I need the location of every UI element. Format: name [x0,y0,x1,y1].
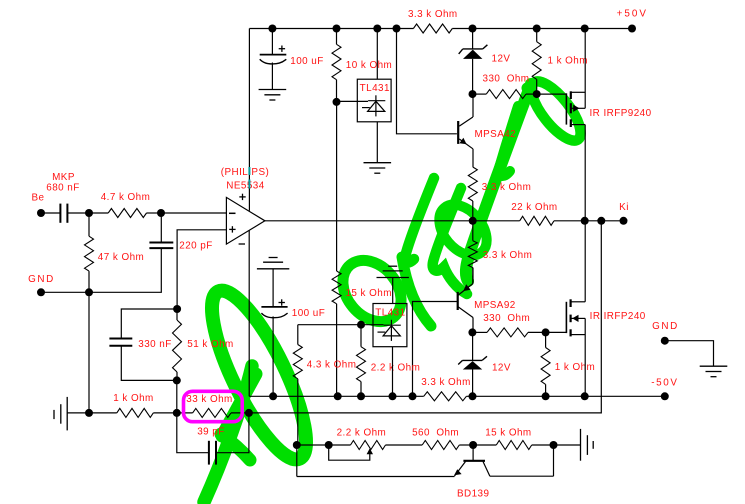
resistor 330 Ohm (top) [473,90,537,99]
node BD139 base junction [469,441,477,449]
node 330/1k junction bottom [542,328,550,336]
net label Be [32,193,45,204]
resistor 1 k Ohm (top) [532,29,541,95]
resistor 3.3 k Ohm (upper VAS) [468,167,477,221]
regulator TL431 (bottom) symbol [378,320,401,341]
value label 3.3 k Ohm (top rail) [408,9,458,20]
terminal +50V [628,25,636,33]
svg-text:4.7 k Ohm: 4.7 k Ohm [101,192,151,203]
transistor Q3 BD139 [297,445,554,477]
wire TL431 cathode to rail [376,29,378,80]
op-amp inverting input minus sign [229,212,236,214]
svg-text:15 k Ohm: 15 k Ohm [485,428,531,439]
ground below TL431 top [364,163,392,174]
resistor 1 k Ohm (feedback) [89,408,177,417]
terminal -50V [661,392,669,400]
resistor 15 k Ohm (mid) [332,271,341,396]
wire to op-amp inverting input [161,212,226,214]
svg-text:MPSA92: MPSA92 [474,300,516,311]
wire MPSA42 base feed [397,29,457,134]
svg-text:+50V: +50V [617,9,648,20]
value label 47 k Ohm [98,252,144,263]
node -50V FET source junction [581,392,589,400]
svg-text:330 Ohm: 330 Ohm [483,313,530,324]
capacitor MKP 680 nF [60,204,67,223]
wire bias line left [297,444,351,446]
svg-text:-50V: -50V [651,378,678,389]
part label BD139 [457,489,490,500]
node trimmer junction [325,441,333,449]
ground symbol left [54,397,67,431]
svg-text:TL431: TL431 [375,307,405,318]
svg-text:100 uF: 100 uF [290,56,323,67]
svg-text:33 k Ohm: 33 k Ohm [186,394,232,405]
net label Ki [619,202,629,213]
net label -50V [651,378,678,389]
value label 15 k Ohm (bias) [485,428,531,439]
capacitor 220 pF [149,213,173,248]
wire gate feed P-FET [537,93,567,95]
node 51k bottom junction [173,376,181,384]
node feedback left junction [173,409,181,417]
part label IR IRFP9240 [589,108,651,119]
ground above 100uF bottom [257,258,289,269]
resistor 2.2 k Ohm (trimmer) [351,441,386,450]
value label 1 k Ohm (feedback) [113,393,153,404]
wire +50V rail left segment [249,28,413,30]
svg-text:47 k Ohm: 47 k Ohm [98,252,144,263]
highlight box around 33 k Ohm [184,391,243,421]
regulator TL431 (bottom) box [373,304,407,347]
wire V-filt line [249,395,424,397]
op-amp noninverting input plus sign [229,226,235,232]
node BD139 collector junction [550,441,558,449]
svg-text:GND: GND [652,321,679,332]
value label 220 pF [179,241,212,252]
svg-text:1 k Ohm: 1 k Ohm [555,362,595,373]
wire 560 to node [459,444,473,446]
node -50V 1k junction [542,392,550,400]
value label 22 k Ohm [511,202,557,213]
svg-text:330 nF: 330 nF [138,339,171,350]
value label 4.3 k Ohm [307,359,357,370]
resistor 3.3 k Ohm (top rail series) [413,24,452,33]
svg-text:Ki: Ki [619,202,629,213]
svg-text:3.3 k Ohm: 3.3 k Ohm [408,9,458,20]
node on rail (10k) [333,25,341,33]
wire 51k to feedback node [176,380,178,413]
resistor 47 k Ohm [85,213,94,292]
value label 1 k Ohm (top) [547,56,587,67]
op-amp V- pin minus sign [239,243,245,245]
node feedback right junction [245,409,253,417]
node V-filt TL431 junction [389,392,397,400]
wire op-amp V+ supply [248,29,250,211]
wire ground to 1k [67,412,89,414]
node on rail (1k) [533,25,541,33]
terminal Be input [37,209,45,217]
wire op-amp V- supply [248,230,250,396]
op-amp label NE5534 [226,181,264,192]
regulator TL431 (top) symbol [362,95,385,116]
svg-text:100 uF: 100 uF [292,308,325,319]
wire input to cap [41,212,60,214]
teal overlap marks on supply line [248,167,250,189]
wire 47k leg down [88,292,90,413]
wire bias to ground right [554,444,581,446]
plus sign 100uF bottom [279,299,285,305]
node on rail (FET source) [581,25,589,33]
transistor M1 IR IRFP9240 [566,29,585,221]
resistor 3.3 k Ohm (neg rail series) [424,392,467,401]
svg-text:51 k Ohm: 51 k Ohm [187,339,233,350]
terminal GND right [661,337,669,345]
wire -50V rail [466,395,664,397]
op-amp U1 NE5534 triangle [226,197,265,244]
resistor 560 Ohm [422,441,459,450]
node V-filt 2.2k junction [357,392,365,400]
resistor 3.3 k Ohm (lower VAS) [468,221,477,284]
resistor 22 k Ohm [473,216,585,225]
resistor 2.2 k Ohm (TL431) [357,325,366,397]
plus sign 100uF top [279,46,285,52]
terminal Ki output [620,217,628,225]
resistor 330 Ohm (bottom) [472,328,545,337]
value label 15 k Ohm (mid) [345,288,391,299]
svg-text:330 Ohm: 330 Ohm [483,73,530,84]
svg-text:4.3 k Ohm: 4.3 k Ohm [307,359,357,370]
svg-text:560 Ohm: 560 Ohm [412,428,459,439]
ground above TL431 bottom [377,266,409,277]
svg-text:22 k Ohm: 22 k Ohm [511,202,557,213]
transistor M2 IR IRFP240 [566,221,585,396]
regulator TL431 (top) box [357,79,391,122]
wire MPSA92 base feed [413,302,457,397]
node ground junction [85,409,93,417]
ground symbol right [700,366,728,377]
terminal GND input [37,288,45,296]
op-amp label (PHILIPS) [221,167,270,178]
node GND/47k junction [85,288,93,296]
resistor 4.3 k Ohm [293,325,302,445]
part label TL431 (top) [360,83,390,94]
svg-text:680 nF: 680 nF [46,183,79,194]
node on rail (100uF) [268,25,276,33]
wire cap to node [67,212,89,214]
capacitor 100 uF (bottom) [261,269,287,397]
transistor Q2 MPSA92 [458,268,473,333]
node V-filt MPSA92 base junction [409,392,417,400]
node on rail (MPSA42 base feed) [393,25,401,33]
part label MPSA92 [474,300,516,311]
node feedback tap [597,217,605,225]
watermark KD audio [195,74,589,502]
net label GND input [28,274,55,285]
svg-text:10 k Ohm: 10 k Ohm [346,60,392,71]
value label 33 k Ohm [186,394,232,405]
value label 100 uF (bottom) [292,308,325,319]
resistor 1 k Ohm (bottom) [541,332,550,396]
value label 680 nF [46,183,79,194]
node inverting input junction [157,209,165,217]
wire output segment [585,220,624,222]
net label GND right [652,321,679,332]
wire bias middle [386,444,423,446]
node on rail (zener/3.3k) [469,25,477,33]
svg-text:3.3 k Ohm: 3.3 k Ohm [482,182,532,193]
svg-text:39 pF: 39 pF [197,426,225,437]
node TL431 bottom ref junction [357,321,365,329]
svg-text:3.3 k Ohm: 3.3 k Ohm [483,250,533,261]
svg-text:12V: 12V [492,363,511,374]
node 51k top junction [173,305,181,313]
capacitor 330 nF [109,309,177,380]
svg-text:(PHILIPS): (PHILIPS) [221,167,270,178]
wire GND line [41,248,161,292]
zener diode 12V (bottom) [458,332,487,396]
value label 39 pF [197,426,225,437]
wire TL431 bottom anode [392,347,394,397]
node -50V zener junction [469,392,477,400]
wire op-amp output [265,220,473,222]
wire to op-amp noninverting input [177,230,226,309]
svg-text:BD139: BD139 [457,489,490,500]
node on rail (TL431 cathode) [373,25,381,33]
svg-text:15 k Ohm: 15 k Ohm [345,288,391,299]
svg-text:220 pF: 220 pF [179,241,212,252]
svg-text:MPSA42: MPSA42 [474,129,516,140]
op-amp V+ pin plus sign [239,194,245,200]
svg-text:IR IRFP240: IR IRFP240 [590,311,646,322]
svg-text:1 k Ohm: 1 k Ohm [113,393,153,404]
value label 12V (bottom) [492,363,511,374]
wire 4.3k top corner [298,324,384,326]
ground symbol bias right [581,429,594,461]
value label 330 Ohm (bottom) [483,313,530,324]
svg-text:MKP: MKP [52,172,75,183]
svg-text:Be: Be [32,193,45,204]
value label 12V (top) [492,54,511,65]
value label 3.3 k Ohm (upper VAS) [482,182,532,193]
value label 2.2 k Ohm (bias) [337,428,387,439]
trimmer wiper arm [329,445,373,460]
part label TL431 (bottom) [375,307,405,318]
svg-text:2.2 k Ohm: 2.2 k Ohm [371,363,421,374]
node V-filt 15k junction [334,392,342,400]
resistor 4.7 k Ohm [89,209,161,218]
wire TL431 ref [337,100,369,102]
node MPSA92 collector junction [468,328,476,336]
value label 4.7 k Ohm [101,192,151,203]
value label 100 uF (top) [290,56,323,67]
transistor Q1 MPSA42 [458,94,473,167]
node V-filt 100uF junction [269,392,277,400]
svg-text:TL431: TL431 [360,83,390,94]
value label 330 nF [138,339,171,350]
node zener/330 junction [469,90,477,98]
wire TL431 bottom cathode [392,278,394,304]
wire TL431 anode to ground [376,122,378,163]
value label 10 k Ohm [346,60,392,71]
part label IR IRFP240 [590,311,646,322]
value label MKP [52,172,75,183]
net label +50V [617,9,648,20]
wire feedback line to output [249,221,601,413]
node input junction [85,209,93,217]
svg-text:IR IRFP9240: IR IRFP9240 [589,108,651,119]
svg-text:12V: 12V [492,54,511,65]
zener diode 12V (top) [459,29,488,95]
ground below 100uF top [259,90,287,101]
capacitor 100 uF (top) [260,29,287,90]
node bias left junction [293,441,301,449]
resistor 15 k Ohm (bias) [473,441,553,450]
value label 2.2 k Ohm (TL431) [371,363,421,374]
node FET drain junction [581,217,589,225]
resistor 51 k Ohm [173,309,182,380]
resistor 33 k Ohm [177,408,249,417]
value label 1 k Ohm (bottom) [555,362,595,373]
value label 3.3 k Ohm (lower VAS) [483,250,533,261]
resistor 10 k Ohm [332,29,341,102]
wire gate feed N-FET [546,331,567,333]
value label 560 Ohm [412,428,459,439]
svg-text:3.3 k Ohm: 3.3 k Ohm [421,377,471,388]
node VAS output junction [469,217,477,225]
value label 51 k Ohm [187,339,233,350]
wire GND right to ground [665,341,714,367]
node 330/1k junction [533,90,541,98]
value label 3.3 k Ohm (neg rail) [421,377,471,388]
svg-text:2.2 k Ohm: 2.2 k Ohm [337,428,387,439]
svg-text:GND: GND [28,274,55,285]
svg-text:1 k Ohm: 1 k Ohm [547,56,587,67]
value label 330 Ohm (top) [483,73,530,84]
part label MPSA42 [474,129,516,140]
wire divider down to 15k [336,102,338,271]
svg-text:NE5534: NE5534 [226,181,264,192]
node TL431 ref junction [333,98,341,106]
capacitor 39 pF [177,413,249,465]
wire +50V rail right segment [452,28,632,30]
